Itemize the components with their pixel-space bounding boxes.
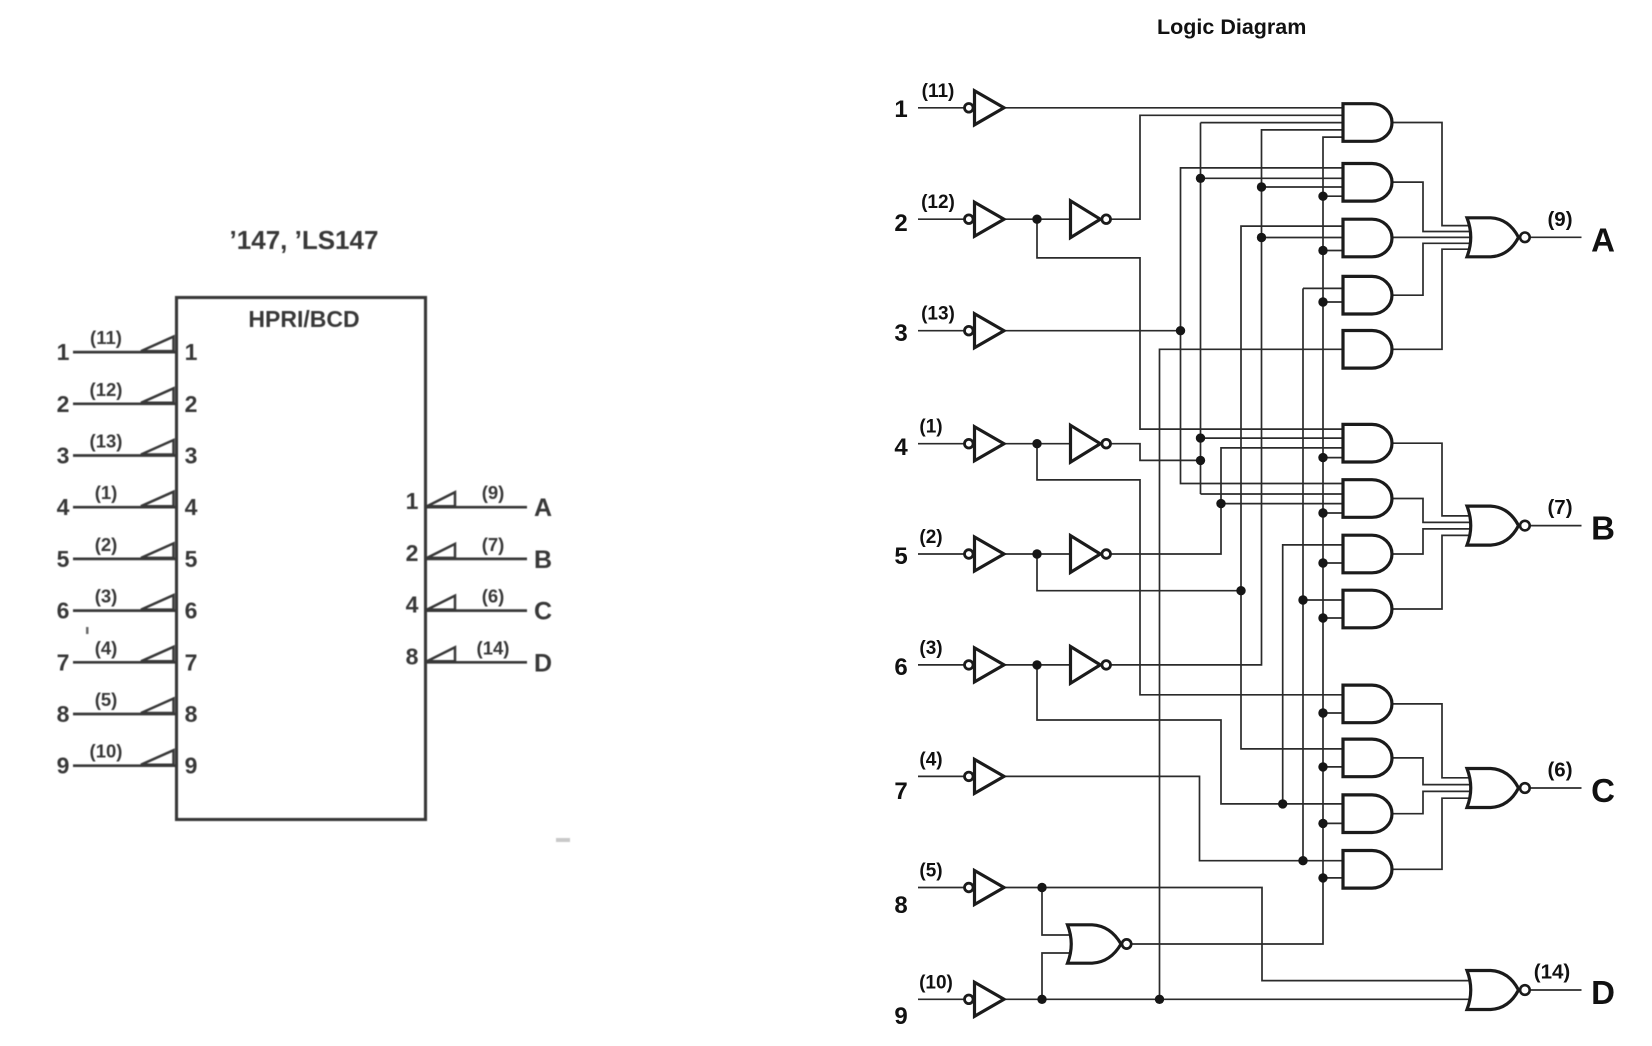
svg-text:(6): (6) (482, 586, 505, 607)
inverter net 5 (1071, 536, 1111, 573)
svg-text:4: 4 (406, 592, 419, 618)
AND gate A3 (1343, 219, 1392, 257)
polarity wedge input 7 left figure (141, 647, 174, 662)
svg-text:B: B (534, 546, 552, 574)
polarity wedge input 1 left figure (141, 337, 174, 352)
wire gate C3 output to NOR C input 3 (1392, 791, 1472, 813)
polarity wedge input 3 left figure (141, 440, 174, 455)
svg-text:(4): (4) (919, 749, 942, 770)
wire gate C1 output to NOR C input 1 (1392, 704, 1472, 778)
svg-text:(13): (13) (921, 304, 955, 325)
svg-text:(12): (12) (921, 192, 955, 213)
svg-text:(1): (1) (919, 417, 942, 438)
AND gate C4 (1343, 851, 1392, 889)
svg-text:2: 2 (185, 391, 198, 417)
wire net 3 riser to gate B2 input 1 (1181, 331, 1346, 484)
svg-text:(3): (3) (95, 586, 118, 607)
wire input 9 left figure (73, 764, 177, 767)
svg-text:(1): (1) (95, 482, 118, 503)
junction net 5 feed (1236, 586, 1245, 595)
polarity wedge input 8 left figure (141, 699, 174, 714)
wire input 4 to buffer (918, 443, 964, 445)
svg-text:(10): (10) (90, 741, 123, 762)
svg-text:(11): (11) (90, 327, 122, 348)
svg-text:(5): (5) (919, 861, 942, 882)
wire net NOR89 output riser (1132, 137, 1345, 944)
inverter net 4 (1071, 425, 1111, 462)
svg-text:7: 7 (57, 649, 70, 675)
junction NOR89 C4 (1318, 873, 1327, 882)
svg-text:(3): (3) (919, 638, 942, 659)
node 8 (1037, 883, 1046, 892)
svg-text:2: 2 (406, 540, 419, 566)
scan artifact mark (556, 838, 570, 842)
junction NOR89 B4 (1318, 613, 1327, 622)
polarity wedge output C left figure (427, 596, 455, 610)
wire output B left figure (426, 558, 528, 561)
wire NOR C output (1530, 787, 1582, 789)
junction net 4bar A2 (1196, 174, 1205, 183)
svg-text:(2): (2) (919, 527, 942, 548)
wire net NOR89 to gate A3 input 3 (1323, 250, 1345, 252)
wire input 6 left figure (73, 609, 177, 612)
AND gate A1 (1343, 104, 1392, 142)
buffer input 6 (965, 648, 1005, 682)
polarity wedge output D left figure (427, 647, 455, 661)
wire NOR A output (1530, 236, 1582, 238)
junction NOR89 A2 (1318, 192, 1327, 201)
wire input 5 to buffer (918, 553, 964, 555)
buffer input 8 (965, 871, 1005, 905)
junction net 6bar A3 (1257, 233, 1266, 242)
wire input 6 to buffer (918, 664, 964, 666)
wire net 4bar riser (1200, 123, 1202, 494)
wire net 3 riser to gate A2 input 1 (1181, 168, 1346, 331)
svg-text:(9): (9) (482, 482, 505, 503)
wire net 7 riser (1302, 288, 1304, 860)
wire net NOR89 to gate B3 input 2 (1323, 562, 1345, 564)
wire net 6 riser to gate B3 input 1 (1283, 545, 1345, 804)
AND gate B2 (1343, 480, 1392, 518)
wire net NOR89 to gate C1 input 2 (1323, 712, 1345, 714)
svg-text:Logic Diagram: Logic Diagram (1157, 15, 1306, 39)
wire input 5 left figure (73, 558, 177, 561)
wire net 4bar to gate B2 input 2 (1201, 493, 1346, 495)
wire net 5bar inverter output to riser (1110, 448, 1345, 554)
svg-text:8: 8 (894, 892, 907, 919)
wire net 6bar inverter output to riser (1110, 130, 1345, 665)
wire net 4 node drop to gate C1 input 1 (1037, 444, 1345, 695)
svg-text:(9): (9) (1547, 208, 1572, 231)
junction net 6 C3 (1278, 799, 1287, 808)
svg-text:3: 3 (185, 443, 198, 469)
svg-text:(12): (12) (90, 379, 123, 400)
svg-text:6: 6 (894, 654, 907, 681)
wire input 8 to buffer (918, 887, 964, 889)
AND gate C2 (1343, 739, 1392, 777)
wire gate A4 output to NOR A input 4 (1392, 243, 1472, 295)
wire net NOR89 to gate B1 input 4 (1323, 457, 1345, 459)
svg-text:2: 2 (57, 391, 70, 417)
wire gate B1 output to NOR B input 1 (1392, 443, 1472, 516)
svg-text:8: 8 (185, 701, 198, 727)
svg-text:9: 9 (185, 753, 198, 779)
wire net 9 buffer output to gate D input 2 (1004, 998, 1474, 1000)
wire NOR B output (1530, 525, 1582, 527)
buffer input 3 (965, 314, 1005, 348)
wire net NOR89 to gate B4 input 2 (1323, 617, 1345, 619)
svg-text:1: 1 (406, 488, 419, 514)
wire input 3 to buffer (918, 330, 964, 332)
wire net 4bar inverter output to junction (1110, 444, 1201, 461)
AND gate A5 (1343, 331, 1392, 369)
junction net 7 C4 (1298, 856, 1307, 865)
junction net 3 (1176, 326, 1185, 335)
wire gate B3 output to NOR B input 3 (1392, 529, 1472, 554)
IC body box 147 (177, 298, 426, 820)
junction NOR89 A4 (1318, 297, 1327, 306)
svg-text:8: 8 (406, 643, 419, 669)
svg-text:(10): (10) (919, 972, 953, 993)
svg-text:(14): (14) (1534, 961, 1570, 984)
wire net NOR89 to gate C2 input 2 (1323, 766, 1345, 768)
svg-text:(7): (7) (482, 534, 505, 555)
svg-text:(11): (11) (922, 81, 955, 102)
svg-text:5: 5 (57, 546, 70, 572)
svg-text:6: 6 (57, 598, 70, 624)
wire output D left figure (426, 661, 528, 664)
svg-text:7: 7 (894, 778, 907, 805)
junction NOR89 C1 (1318, 708, 1327, 717)
wire net 1 buffer output to gate A1 input 1 (1004, 107, 1345, 109)
AND gate C1 (1343, 685, 1392, 723)
wire buffer 3 output to junction (1004, 330, 1181, 332)
junction NOR89 C3 (1318, 819, 1327, 828)
svg-text:4: 4 (185, 494, 198, 520)
svg-text:C: C (1591, 772, 1615, 809)
polarity wedge input 9 left figure (141, 750, 174, 765)
node 2 (1032, 215, 1041, 224)
wire net NOR89 to gate A4 input 2 (1323, 301, 1345, 303)
junction net 4bar feed (1196, 456, 1205, 465)
junction NOR89 B2 (1318, 508, 1327, 517)
buffer input 4 (965, 427, 1005, 461)
junction net 4bar B1 (1196, 433, 1205, 442)
svg-text:(5): (5) (95, 689, 118, 710)
svg-text:D: D (1591, 974, 1615, 1011)
wire buffer 4 output to node 4 (1004, 443, 1071, 445)
wire input 8 left figure (73, 713, 177, 716)
wire gate A1 output to NOR A input 1 (1392, 123, 1472, 226)
svg-text:2: 2 (894, 210, 907, 237)
svg-text:5: 5 (894, 543, 907, 570)
svg-text:B: B (1591, 510, 1615, 547)
svg-text:HPRI/BCD: HPRI/BCD (248, 306, 359, 332)
polarity wedge input 4 left figure (141, 492, 174, 507)
svg-text:(6): (6) (1547, 759, 1572, 782)
buffer input 1 (965, 91, 1005, 125)
wire net 4bar to gate B1 input 2 (1201, 437, 1346, 439)
wire net NOR89 to gate B2 input 4 (1323, 512, 1345, 514)
AND gate B1 (1343, 424, 1392, 462)
AND gate B3 (1343, 535, 1392, 573)
wire gate A5 output to NOR A input 5 (1392, 249, 1472, 349)
wire net 5bar to gate B2 input 3 (1221, 503, 1345, 505)
junction net 6bar A2 (1257, 182, 1266, 191)
svg-text:9: 9 (894, 1003, 907, 1030)
svg-text:6: 6 (185, 598, 198, 624)
wire net 7 to gate A4 input 1 (1303, 287, 1345, 289)
wire gate B4 output to NOR B input 4 (1392, 535, 1472, 609)
junction NOR89 A3 (1318, 246, 1327, 255)
wire input 2 left figure (73, 402, 177, 405)
svg-text:9: 9 (57, 753, 70, 779)
wire output A left figure (426, 506, 528, 509)
svg-text:(13): (13) (90, 431, 123, 452)
wire net NOR89 to gate C4 input 2 (1323, 877, 1345, 879)
svg-text:3: 3 (57, 443, 70, 469)
svg-text:4: 4 (57, 494, 70, 520)
NOR gate output B (1467, 506, 1519, 545)
junction net 7 B4 (1298, 595, 1307, 604)
node 9 (1037, 995, 1046, 1004)
svg-text:5: 5 (185, 546, 198, 572)
wire net 8 buffer output to gate D input 1 (1004, 888, 1474, 981)
node 6 (1032, 660, 1041, 669)
polarity wedge input 5 left figure (141, 543, 174, 558)
svg-text:8: 8 (57, 701, 70, 727)
svg-text:7: 7 (185, 649, 198, 675)
svg-text:3: 3 (894, 320, 907, 347)
wire input 4 left figure (73, 506, 177, 509)
svg-text:(2): (2) (95, 534, 118, 555)
wire buffer 6 output to node 6 (1004, 664, 1071, 666)
NOR gate output C (1467, 769, 1519, 808)
wire input 1 to buffer (918, 107, 964, 109)
node 4 (1032, 439, 1041, 448)
wire gate A2 output to NOR A input 2 (1392, 182, 1472, 231)
junction NOR89 C2 (1318, 762, 1327, 771)
wire net 7 buffer output to gate C4 input 1 (1004, 776, 1345, 860)
svg-text:4: 4 (894, 434, 908, 461)
svg-text:1: 1 (57, 339, 70, 365)
wire net 7 to gate B4 input 1 (1303, 599, 1345, 601)
wire gate B2 output to NOR B input 2 (1392, 499, 1472, 523)
svg-text:C: C (534, 598, 552, 626)
wire net 5 riser to gate C2 input 1 (1241, 591, 1345, 749)
svg-text:’147, ’LS147: ’147, ’LS147 (230, 225, 379, 255)
wire net 6 node drop to junction (1037, 665, 1345, 804)
wire net 5 node drop to riser (1037, 554, 1241, 591)
wire input 1 left figure (73, 351, 177, 354)
wire input 9 to buffer (918, 998, 964, 1000)
inverter net 6 (1071, 647, 1111, 684)
AND gate A2 (1343, 164, 1392, 202)
NOR gate output D (1467, 971, 1519, 1010)
svg-text:(7): (7) (1547, 496, 1572, 519)
node 5 (1032, 549, 1041, 558)
svg-text:A: A (1591, 221, 1615, 258)
AND gate C3 (1343, 795, 1392, 833)
wire net 9 riser to gate A5 input 1 (1160, 349, 1346, 999)
svg-text:D: D (534, 649, 552, 677)
NOR gate output A (1467, 218, 1519, 257)
scan artifact tick above pin 4 label (86, 627, 89, 634)
svg-text:1: 1 (185, 339, 198, 365)
wire net 5 riser to gate A3 input 1 (1241, 226, 1345, 591)
wire net 2 node drop to gate B1 input 1 (1037, 219, 1345, 429)
polarity wedge output B left figure (427, 544, 455, 558)
inverter net 2 (1071, 201, 1111, 238)
wire input 7 left figure (73, 661, 177, 664)
wire net 4bar to gate A2 input 2 (1201, 177, 1346, 179)
wire net 6bar to gate A3 input 2 (1262, 237, 1346, 239)
svg-text:1: 1 (894, 96, 907, 123)
wire net NOR89 to gate A2 input 4 (1323, 195, 1345, 197)
wire gate C4 output to NOR C input 4 (1392, 798, 1472, 869)
junction net 9 A5 (1155, 995, 1164, 1004)
wire input 3 left figure (73, 454, 177, 457)
wire input 7 to buffer (918, 775, 964, 777)
wire net 4bar to gate A1 input 3 (1201, 122, 1346, 124)
wire input 2 to buffer (918, 218, 964, 220)
wire net 2bar inverter output to riser (1110, 115, 1345, 219)
junction net 5bar B2 (1216, 499, 1225, 508)
buffer input 7 (965, 759, 1005, 793)
buffer input 5 (965, 537, 1005, 571)
junction NOR89 B3 (1318, 558, 1327, 567)
wire net 6bar to gate A2 input 3 (1262, 186, 1346, 188)
buffer input 2 (965, 202, 1005, 236)
polarity wedge input 6 left figure (141, 595, 174, 610)
polarity wedge output A left figure (427, 492, 455, 506)
svg-text:A: A (534, 494, 552, 522)
wire buffer 5 output to node 5 (1004, 553, 1071, 555)
wire gate A3 output to NOR A input 3 (1392, 236, 1472, 238)
wire net NOR89 to gate C3 input 2 (1323, 822, 1345, 824)
junction NOR89 B1 (1318, 453, 1327, 462)
wire buffer 2 output to node 2 (1004, 218, 1071, 220)
svg-text:(14): (14) (477, 637, 510, 658)
polarity wedge input 2 left figure (141, 388, 174, 403)
wire gate C2 output to NOR C input 2 (1392, 758, 1472, 785)
AND gate A4 (1343, 276, 1392, 314)
AND gate B4 (1343, 590, 1392, 628)
NOR gate 8-9 (1068, 925, 1122, 963)
svg-text:(4): (4) (95, 637, 118, 658)
wire NOR D output (1530, 989, 1582, 991)
wire output C left figure (426, 609, 528, 612)
wire net 8 node drop to NOR89 input 1 (1042, 888, 1082, 936)
buffer input 9 (965, 982, 1005, 1016)
wire net 9 node rise to NOR89 input 2 (1042, 953, 1082, 999)
